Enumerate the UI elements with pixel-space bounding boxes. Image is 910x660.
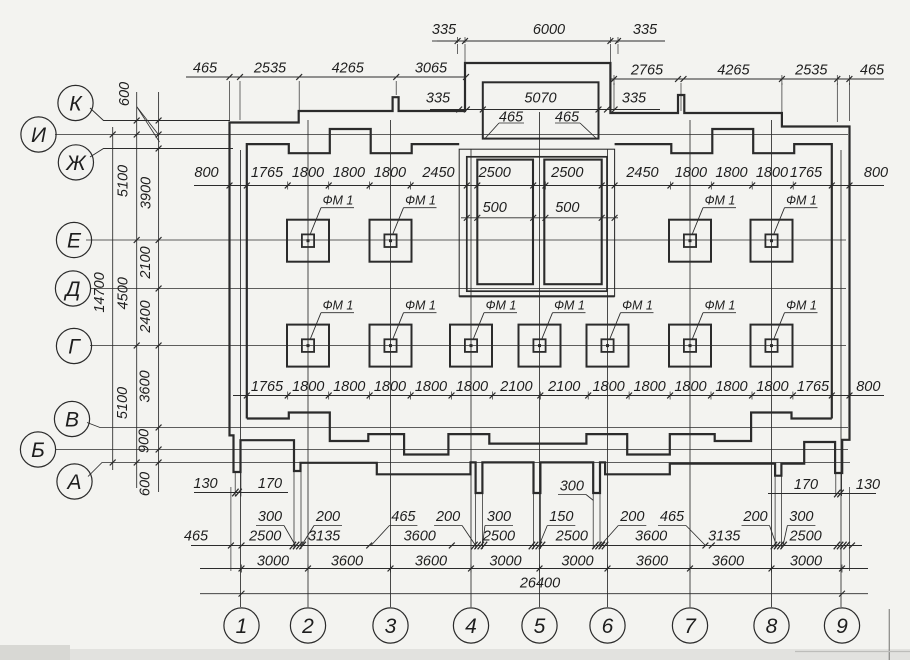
svg-text:2450: 2450	[625, 165, 658, 181]
axis circle Д	[55, 271, 90, 306]
svg-text:3000: 3000	[790, 554, 822, 570]
axis circle 4	[453, 608, 488, 643]
svg-text:1800: 1800	[675, 165, 707, 181]
svg-text:5100: 5100	[115, 387, 131, 419]
axis circle Ж	[58, 145, 93, 180]
svg-text:1800: 1800	[715, 379, 747, 395]
dim row 26400	[200, 593, 868, 595]
svg-text:ФМ 1: ФМ 1	[705, 299, 736, 313]
svg-text:130: 130	[193, 476, 217, 492]
label ФМ1 row Е axis 3	[404, 207, 437, 209]
left dim chain line inner	[158, 92, 160, 492]
axis line Ж	[90, 149, 233, 158]
svg-text:1800: 1800	[592, 379, 624, 395]
svg-text:2765: 2765	[630, 63, 664, 79]
svg-text:1800: 1800	[674, 379, 706, 395]
svg-text:1765: 1765	[790, 165, 823, 181]
svg-text:Ж: Ж	[65, 152, 87, 175]
svg-text:3000: 3000	[257, 554, 289, 570]
svg-text:800: 800	[194, 165, 218, 181]
axis line 9	[840, 150, 842, 607]
svg-text:ФМ 1: ФМ 1	[323, 299, 354, 313]
axis line В	[87, 423, 848, 428]
dim row 6000 top	[437, 40, 665, 42]
svg-text:4: 4	[465, 615, 477, 638]
svg-text:150: 150	[549, 509, 573, 525]
svg-text:900: 900	[137, 429, 153, 453]
left dim chain line outer	[136, 92, 138, 488]
axis line К	[90, 108, 230, 121]
svg-text:2450: 2450	[421, 165, 454, 181]
dim row 2765 4265 2535 465 right	[610, 78, 884, 80]
axis circle 1	[224, 608, 259, 643]
axis circle 7	[672, 608, 707, 643]
foundation inner contour top-right	[615, 129, 832, 419]
svg-text:800: 800	[864, 165, 888, 181]
svg-text:465: 465	[193, 61, 218, 77]
axis circle 8	[754, 608, 789, 643]
svg-text:1800: 1800	[456, 379, 488, 395]
label ФМ1 row Г axis 5	[553, 312, 586, 314]
axis circle 2	[290, 608, 325, 643]
svg-text:1800: 1800	[374, 379, 406, 395]
dim row 130 170 left	[194, 492, 288, 494]
svg-text:1800: 1800	[633, 379, 665, 395]
svg-text:200: 200	[619, 509, 644, 525]
svg-text:465: 465	[660, 509, 685, 525]
svg-text:2500: 2500	[248, 529, 281, 545]
svg-text:2400: 2400	[138, 300, 154, 333]
leaders from 600 to chain	[137, 107, 158, 134]
svg-text:335: 335	[633, 22, 658, 38]
svg-text:3065: 3065	[415, 61, 448, 77]
foundation pad ФМ1 row Е axis 8	[751, 220, 793, 262]
svg-text:200: 200	[742, 509, 767, 525]
svg-text:465: 465	[860, 63, 885, 79]
foundation pad ФМ1 row Г axis 6	[587, 325, 629, 367]
svg-text:4265: 4265	[332, 61, 365, 77]
svg-text:1800: 1800	[292, 379, 324, 395]
axis line 1	[240, 150, 242, 607]
left chain ticks	[134, 118, 140, 124]
label ФМ1 row Г axis 3	[404, 312, 437, 314]
svg-text:6: 6	[602, 615, 614, 638]
pit channel right rectangle	[544, 160, 601, 285]
svg-text:К: К	[69, 93, 83, 116]
svg-text:ФМ 1: ФМ 1	[486, 299, 517, 313]
svg-text:ФМ 1: ФМ 1	[323, 194, 354, 208]
svg-text:7: 7	[684, 615, 697, 638]
axis circle 6	[590, 608, 625, 643]
axis line А	[88, 463, 850, 477]
axis line 4	[470, 149, 472, 607]
svg-text:200: 200	[435, 509, 460, 525]
axis circle 3	[373, 608, 408, 643]
svg-text:5070: 5070	[524, 91, 556, 107]
svg-text:600: 600	[117, 82, 133, 106]
foundation pad ФМ1 row Г axis 8	[751, 325, 793, 367]
axis line Б	[55, 449, 848, 451]
svg-text:ФМ 1: ФМ 1	[405, 194, 436, 208]
foundation pad ФМ1 row Г axis 5	[519, 325, 561, 367]
axis circle 5	[522, 608, 557, 643]
svg-text:2100: 2100	[138, 246, 154, 279]
svg-text:6000: 6000	[533, 22, 565, 38]
svg-text:26400: 26400	[519, 576, 560, 592]
foundation inner contour top-left	[247, 129, 459, 419]
label ФМ1 row Г axis 4	[484, 312, 517, 314]
axis line Е	[86, 239, 846, 241]
svg-text:335: 335	[622, 91, 647, 107]
svg-text:2100: 2100	[499, 379, 532, 395]
svg-text:3600: 3600	[415, 554, 447, 570]
svg-text:1800: 1800	[715, 165, 747, 181]
svg-text:3: 3	[385, 615, 397, 638]
axis line 8	[771, 120, 773, 607]
svg-text:В: В	[65, 409, 79, 432]
svg-text:1765: 1765	[251, 379, 284, 395]
axis circle 9	[824, 608, 859, 643]
slot extension lines	[234, 472, 236, 497]
svg-text:170: 170	[794, 477, 818, 493]
svg-text:2500: 2500	[482, 529, 515, 545]
svg-text:170: 170	[258, 476, 282, 492]
svg-text:5: 5	[534, 615, 546, 638]
axis circle В	[54, 401, 89, 436]
svg-text:5100: 5100	[116, 165, 132, 197]
svg-text:9: 9	[836, 615, 848, 638]
svg-text:ФМ 1: ФМ 1	[705, 194, 736, 208]
svg-text:3000: 3000	[561, 554, 593, 570]
svg-text:335: 335	[426, 91, 451, 107]
foundation pad ФМ1 row Г axis 3	[370, 325, 412, 367]
svg-text:И: И	[31, 124, 47, 147]
foundation pad ФМ1 row Г axis 2	[287, 325, 329, 367]
axis line И	[55, 134, 848, 136]
svg-text:500: 500	[483, 200, 507, 216]
svg-text:2535: 2535	[794, 63, 828, 79]
axis line 3	[390, 120, 392, 607]
svg-text:3600: 3600	[636, 554, 668, 570]
svg-text:2500: 2500	[478, 165, 511, 181]
label ФМ1 row Е axis 8	[785, 207, 818, 209]
svg-text:3135: 3135	[708, 529, 741, 545]
svg-text:1800: 1800	[292, 165, 324, 181]
axis circle Е	[56, 222, 91, 257]
svg-text:2535: 2535	[253, 61, 287, 77]
svg-text:3600: 3600	[404, 529, 436, 545]
dim row 170 130 right	[768, 493, 876, 495]
svg-text:600: 600	[138, 472, 154, 496]
svg-text:1800: 1800	[756, 165, 788, 181]
svg-text:1800: 1800	[415, 379, 447, 395]
svg-text:2500: 2500	[788, 529, 821, 545]
foundation pad ФМ1 row Г axis 4	[450, 325, 492, 367]
pit wall thick rectangle	[467, 157, 607, 291]
svg-text:1765: 1765	[797, 379, 830, 395]
pit top rectangle 5070	[483, 82, 599, 138]
axis line 2	[307, 120, 309, 607]
dim row 465 2535 4265 3065 left	[186, 76, 466, 78]
pit outer bottom thick line	[459, 295, 614, 297]
dim row 500 500	[461, 217, 618, 219]
foundation pad ФМ1 row Е axis 2	[287, 220, 329, 262]
label ФМ1 row Г axis 6	[621, 312, 654, 314]
axis line 7	[689, 120, 691, 607]
foundation pad ФМ1 row Е axis 3	[370, 220, 412, 262]
label ФМ1 row Г axis 2	[321, 312, 354, 314]
axis line Д	[90, 288, 846, 290]
svg-text:8: 8	[766, 615, 778, 638]
pit outer thin rectangle	[459, 149, 614, 296]
foundation pad ФМ1 row Г axis 7	[669, 325, 711, 367]
svg-text:4500: 4500	[116, 277, 132, 309]
dim row 3000 3600	[200, 568, 868, 570]
svg-text:1: 1	[236, 615, 248, 638]
svg-text:300: 300	[789, 509, 813, 525]
axis line Г	[90, 345, 846, 347]
svg-text:ФМ 1: ФМ 1	[405, 299, 436, 313]
svg-text:Е: Е	[67, 230, 82, 253]
svg-text:300: 300	[487, 509, 511, 525]
svg-text:800: 800	[856, 379, 880, 395]
svg-text:300: 300	[560, 479, 584, 495]
foundation pad ФМ1 row Е axis 7	[669, 220, 711, 262]
foundation outer contour	[230, 63, 850, 493]
svg-text:2100: 2100	[547, 379, 580, 395]
dim row 5070	[430, 109, 660, 111]
svg-text:3000: 3000	[489, 554, 521, 570]
svg-text:Д: Д	[64, 278, 81, 301]
axis circle И	[21, 117, 56, 152]
svg-text:1800: 1800	[374, 165, 406, 181]
axis line 6	[607, 149, 609, 607]
svg-text:2500: 2500	[555, 529, 588, 545]
svg-text:2500: 2500	[550, 165, 583, 181]
axis line 5	[539, 112, 541, 607]
label ФМ1 row Е axis 7	[703, 207, 736, 209]
svg-text:465: 465	[391, 509, 416, 525]
svg-text:ФМ 1: ФМ 1	[622, 299, 653, 313]
svg-text:4265: 4265	[717, 63, 750, 79]
svg-text:2: 2	[301, 615, 314, 638]
svg-text:130: 130	[856, 477, 880, 493]
scan paper edge bottom right	[888, 609, 890, 660]
svg-text:1800: 1800	[333, 379, 365, 395]
left dim chain line 14700	[112, 127, 114, 470]
label ФМ1 row Г axis 7	[703, 312, 736, 314]
svg-text:3600: 3600	[712, 554, 744, 570]
svg-text:3600: 3600	[331, 554, 363, 570]
svg-text:465: 465	[184, 529, 209, 545]
svg-text:3135: 3135	[308, 529, 341, 545]
svg-text:200: 200	[315, 509, 340, 525]
axis circle Б	[20, 432, 55, 467]
label ФМ1 row Е axis 2	[321, 207, 354, 209]
axis circle А	[57, 464, 92, 499]
dim row 1765 1800... row Г	[233, 395, 884, 397]
svg-text:1800: 1800	[333, 165, 365, 181]
svg-text:А: А	[65, 471, 81, 494]
svg-text:500: 500	[555, 200, 579, 216]
svg-text:3600: 3600	[635, 529, 667, 545]
pit channel left rectangle	[477, 160, 533, 285]
svg-text:ФМ 1: ФМ 1	[786, 299, 817, 313]
svg-text:14700: 14700	[92, 272, 108, 312]
svg-text:300: 300	[258, 509, 282, 525]
svg-text:Г: Г	[68, 336, 81, 359]
dim row 800 1765 1800... row Е	[194, 185, 884, 187]
foundation inner contour bottom	[247, 413, 832, 455]
svg-text:ФМ 1: ФМ 1	[786, 194, 817, 208]
dim row 2500 3135 3600	[191, 545, 862, 547]
svg-text:3600: 3600	[138, 370, 154, 402]
svg-text:335: 335	[432, 22, 457, 38]
axis circle Г	[56, 328, 91, 363]
svg-text:ФМ 1: ФМ 1	[554, 299, 585, 313]
svg-text:Б: Б	[31, 439, 45, 462]
svg-text:1800: 1800	[756, 379, 788, 395]
axis circle К	[58, 85, 93, 120]
svg-text:3900: 3900	[139, 177, 155, 209]
label ФМ1 row Г axis 8	[785, 312, 818, 314]
svg-text:1765: 1765	[251, 165, 284, 181]
